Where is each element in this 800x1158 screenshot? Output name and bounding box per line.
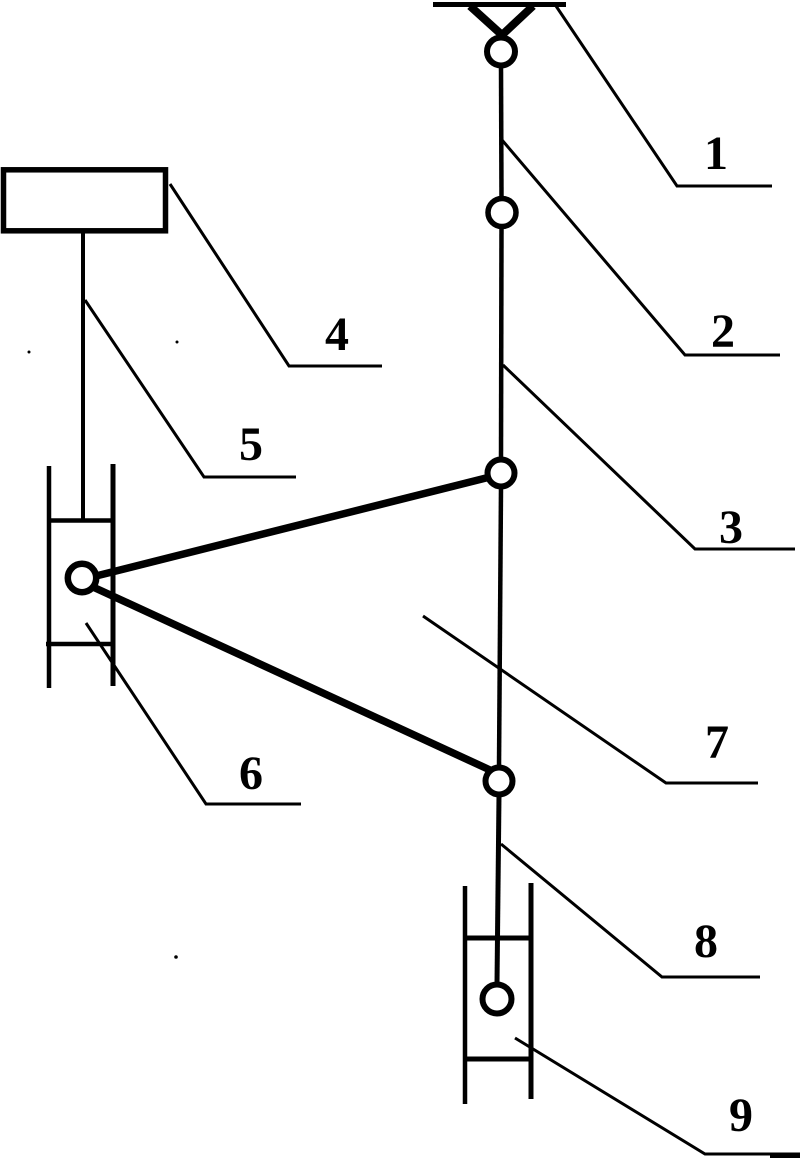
svg-text:3: 3 xyxy=(719,501,743,554)
page-corner artifact xyxy=(770,1155,800,1158)
svg-text:4: 4 xyxy=(325,308,349,361)
svg-text:1: 1 xyxy=(704,127,728,180)
svg-text:8: 8 xyxy=(694,915,718,968)
bottom damper piston bottom xyxy=(465,1057,531,1062)
ring joint E (bottom piston pin) xyxy=(483,985,512,1014)
pin ring joint 6 (left piston pin) xyxy=(68,564,96,592)
rod segment 8 (down to damper piston pin) xyxy=(497,795,499,984)
leader line 5 xyxy=(85,300,296,477)
rod segment 2 (upper tie rod) xyxy=(499,67,504,198)
bottom damper right wall xyxy=(529,883,534,1099)
leader line 6 xyxy=(86,623,301,804)
bottom damper piston top xyxy=(465,936,531,941)
link upper (pin to joint C) xyxy=(96,477,490,576)
left damper right wall xyxy=(111,464,116,686)
ring joint C xyxy=(488,460,515,487)
left damper piston top xyxy=(47,518,113,523)
leader line 2 xyxy=(502,140,780,355)
leader line 8 xyxy=(501,844,760,977)
counterweight box 4 xyxy=(4,170,166,231)
ring joint D xyxy=(486,768,513,795)
leader line 9 xyxy=(515,1038,800,1154)
speck artifact left xyxy=(28,351,31,354)
ring joint B xyxy=(488,199,516,227)
svg-text:7: 7 xyxy=(705,716,729,769)
rod segment 3 xyxy=(499,227,504,460)
svg-text:2: 2 xyxy=(711,305,735,358)
leader line 4 xyxy=(170,184,382,366)
leader line 7 xyxy=(423,616,758,783)
bottom damper left wall xyxy=(463,886,468,1104)
svg-text:9: 9 xyxy=(729,1089,753,1142)
fixed frame bar (top support) xyxy=(433,2,566,7)
speck artifact lower-left xyxy=(174,955,178,959)
left damper left wall xyxy=(47,466,52,688)
hinge right leg xyxy=(502,6,533,35)
left damper piston bottom xyxy=(46,642,112,647)
box rod 5 xyxy=(81,233,85,519)
leader line 1 xyxy=(556,6,772,186)
ring joint A (top hinge eye) xyxy=(487,38,515,66)
svg-text:5: 5 xyxy=(239,418,263,471)
rod segment 7 xyxy=(499,487,501,767)
speck artifact mid xyxy=(176,341,179,344)
svg-text:6: 6 xyxy=(239,747,263,800)
hinge left leg xyxy=(470,6,502,35)
link lower (pin to joint D) xyxy=(93,587,490,770)
leader line 3 xyxy=(503,365,795,549)
